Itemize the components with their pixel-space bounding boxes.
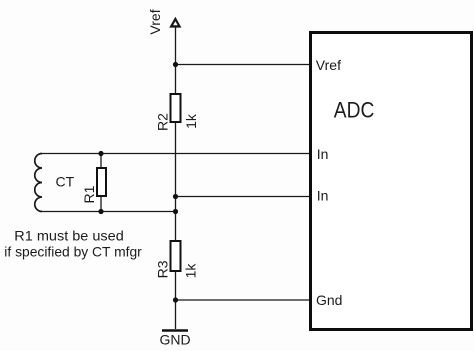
svg-text:if specified by CT mfgr: if specified by CT mfgr <box>4 244 142 260</box>
svg-text:Vref: Vref <box>316 57 341 73</box>
svg-text:CT: CT <box>56 174 75 190</box>
svg-text:In: In <box>317 188 329 204</box>
svg-text:In: In <box>317 146 329 162</box>
svg-text:R2: R2 <box>154 113 170 131</box>
svg-text:R3: R3 <box>154 260 170 278</box>
svg-text:Vref: Vref <box>147 9 163 34</box>
svg-text:R1 must be used: R1 must be used <box>14 228 124 244</box>
svg-text:GND: GND <box>159 332 190 348</box>
svg-text:1k: 1k <box>183 113 199 129</box>
svg-text:Gnd: Gnd <box>316 292 342 308</box>
svg-text:R1: R1 <box>81 185 97 203</box>
svg-text:ADC: ADC <box>334 97 375 122</box>
svg-text:1k: 1k <box>183 263 199 279</box>
